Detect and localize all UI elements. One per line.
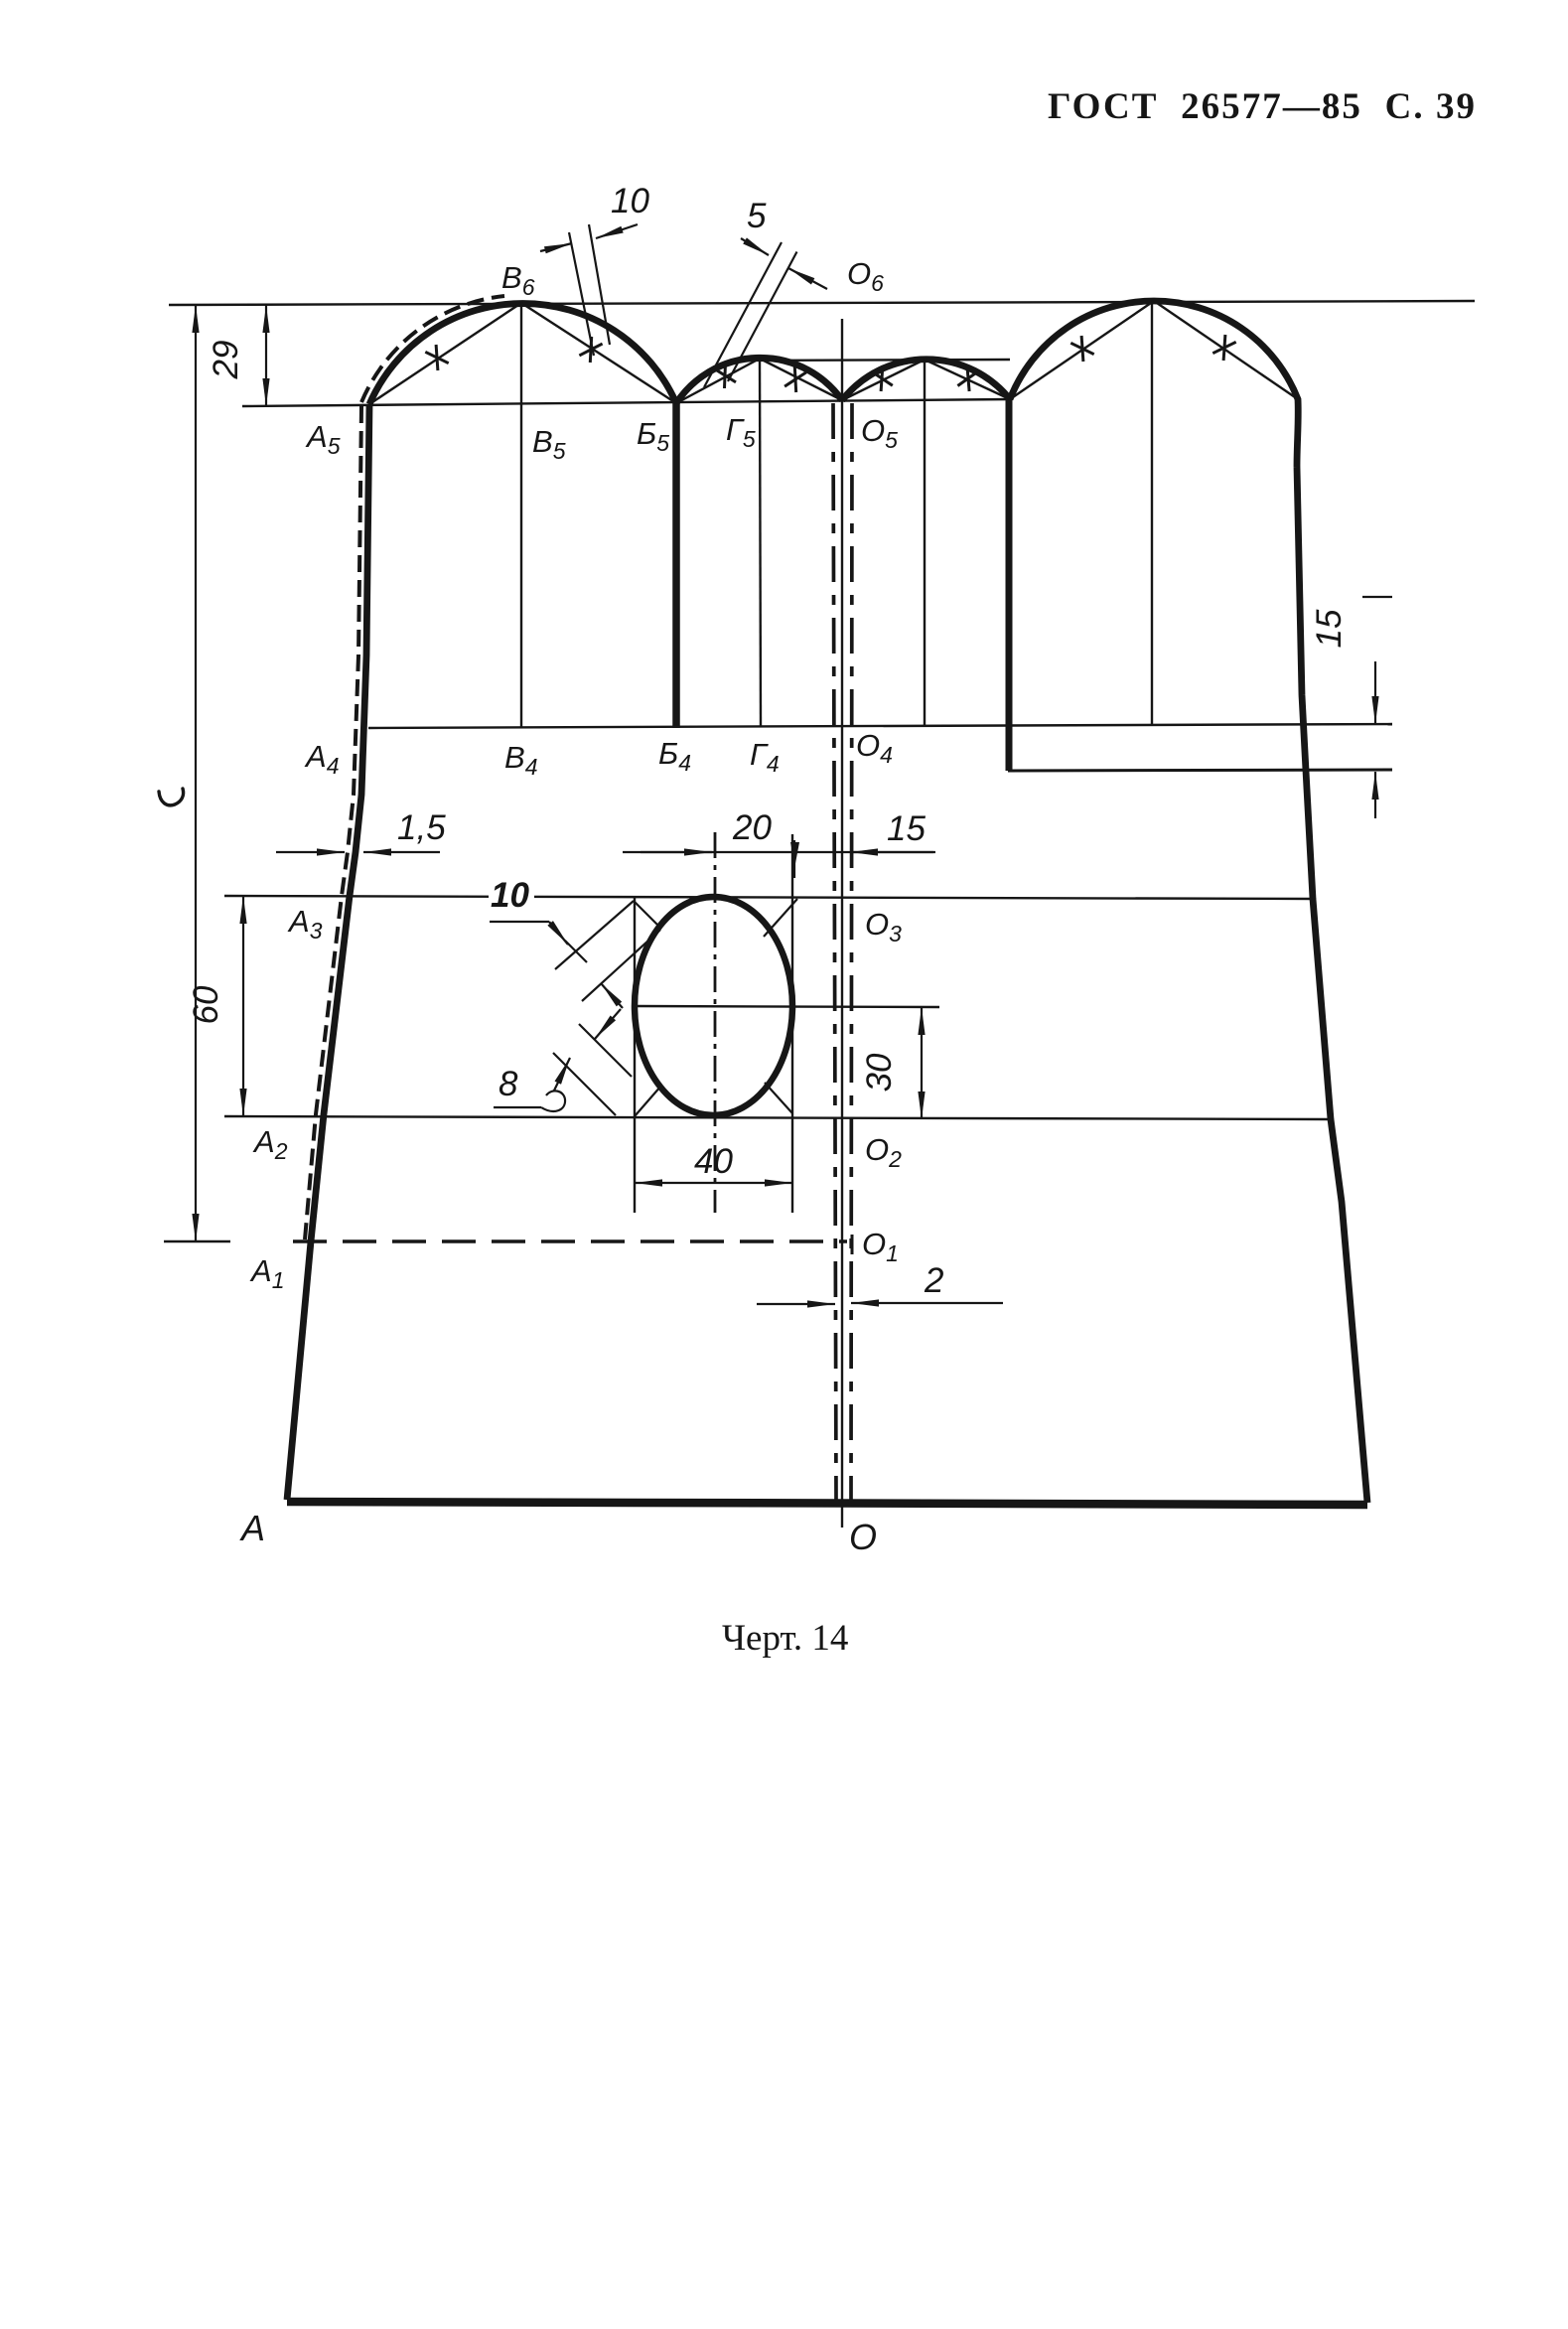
thumb corner diagonal top-right	[764, 899, 797, 937]
svg-text:О5: О5	[861, 413, 898, 453]
svg-text:10: 10	[611, 182, 649, 220]
svg-text:О2: О2	[865, 1132, 902, 1172]
dim 60 vertical line with arrows	[242, 896, 244, 1116]
svg-text:30: 30	[860, 1053, 899, 1092]
svg-text:8: 8	[499, 1065, 518, 1103]
thumb ext diagonal L3 through tangent point	[582, 930, 660, 1001]
horizontal centre line of thumb hole	[637, 1006, 939, 1007]
svg-text:15: 15	[887, 809, 926, 848]
node marker X3 on chord	[714, 363, 736, 388]
outline: small arc G-O5	[842, 360, 1010, 400]
centre axis left dashed companion	[833, 403, 836, 1502]
svg-text:А2: А2	[252, 1124, 288, 1164]
outline: small arc B5-G	[676, 358, 842, 403]
svg-text:В5: В5	[532, 424, 566, 464]
svg-text:Б5: Б5	[637, 416, 669, 456]
svg-text:А5: А5	[305, 419, 341, 459]
thumb corner diagonal top-left	[634, 901, 661, 929]
horizontal line A5 level	[242, 399, 1010, 406]
outline: big arc A5-B6-B5(index)	[369, 304, 676, 404]
svg-text:Г4: Г4	[750, 737, 780, 777]
svg-text:О4: О4	[856, 728, 893, 768]
svg-text:5: 5	[747, 197, 767, 235]
vertical thin line from right big arc peak	[1151, 301, 1153, 724]
dim 40 line with arrows	[635, 1182, 792, 1184]
outline: bottom edge A-O	[287, 1502, 1367, 1505]
horizontal line A4-O4	[368, 724, 1392, 728]
svg-text:О1: О1	[862, 1227, 899, 1266]
node marker X2 on chord	[579, 337, 602, 363]
outline: right edge	[1297, 467, 1367, 1503]
horizontal solid stub of A1 line (left)	[164, 1240, 230, 1242]
leader arrow of dim 10 (thumb): slanted shaft with arrow	[549, 922, 568, 945]
dim text 10 thumb (with white backing)	[489, 878, 534, 911]
svg-text:А1: А1	[249, 1253, 284, 1293]
vertical thin line from G peak	[760, 359, 761, 726]
leader of dim 8: curl	[541, 1091, 565, 1111]
thumb hole rectangle right extension line	[791, 834, 793, 1213]
svg-text:О: О	[849, 1517, 877, 1557]
svg-text:60: 60	[187, 985, 225, 1024]
dim 1,5: right shaft arrow left	[363, 851, 440, 853]
svg-text:1,5: 1,5	[397, 808, 446, 847]
dim 2: right shaft arrow left	[851, 1302, 1003, 1304]
svg-text:Б4: Б4	[658, 736, 691, 776]
double arrow to L5 (lower)	[595, 1009, 621, 1039]
svg-text:А3: А3	[287, 904, 323, 944]
svg-text:Г5: Г5	[726, 412, 756, 452]
chord A5-B6	[369, 303, 521, 404]
chord B6-B5	[521, 303, 676, 403]
dim 15 arrow at centre axis	[850, 851, 933, 853]
dim 5 extension line 2	[728, 252, 797, 382]
thumb ext diagonal L5 to ellipse	[579, 1024, 632, 1077]
node marker X7 on chord	[1070, 336, 1093, 362]
centre axis right dashed companion	[851, 403, 852, 1502]
svg-text:20: 20	[732, 808, 772, 847]
dim 15 right: lower shaft arrow up	[1374, 772, 1376, 818]
tick at O1	[851, 1235, 854, 1254]
dim 30 vertical line with arrows	[921, 1007, 923, 1119]
svg-text:В6: В6	[501, 260, 535, 300]
thumb ext diagonal L4 lower	[553, 1053, 616, 1115]
horizontal line A3-O3	[224, 896, 1313, 899]
chord base-peak3	[1010, 301, 1154, 399]
dim 5 arrow lower	[788, 268, 827, 289]
svg-text:29: 29	[207, 341, 245, 380]
vertical thin line from peak right of O5	[924, 360, 926, 726]
leader arrow of dim 10 (thumb): underline	[490, 921, 549, 923]
dim 5 arrow upper	[741, 238, 769, 255]
top horizontal construction line through B6	[169, 301, 1475, 305]
horizontal line at small-arc peaks	[748, 360, 1010, 361]
chord O5-peak2	[842, 360, 925, 400]
dim 15 right: label tick	[1362, 596, 1392, 598]
cut line at right arc left base	[1006, 399, 1013, 771]
leader of dim 8: underline	[494, 1106, 541, 1108]
dim 2: left shaft arrow right	[757, 1303, 835, 1305]
dim 15 right: upper shaft arrow down	[1374, 661, 1376, 724]
horizontal line 15 below O4 (little finger base)	[1008, 770, 1392, 771]
svg-text:Черт. 14: Черт. 14	[722, 1618, 848, 1659]
svg-text:В4: В4	[504, 740, 537, 780]
thumb hole ellipse	[635, 897, 792, 1115]
chord peak2-base	[925, 360, 1010, 399]
thumb corner diagonal bottom-left	[635, 1086, 661, 1116]
svg-text:ГОСТ 26577—85 С. 39: ГОСТ 26577—85 С. 39	[1048, 86, 1475, 127]
svg-text:15: 15	[1310, 609, 1349, 648]
vertical thin line from B6 peak	[520, 303, 522, 728]
tick crossing at leader tip	[565, 941, 587, 962]
outline: right big arc	[1010, 301, 1298, 467]
node marker X1 on chord	[425, 345, 448, 370]
cut line at B5 vertex	[672, 403, 680, 728]
dim 10 (top) arrow left	[540, 243, 572, 251]
svg-text:10: 10	[491, 876, 529, 915]
dim 20 arrow at thumb centre line	[641, 851, 712, 853]
dashed line A1-O1	[293, 1239, 847, 1242]
dashed allowance arc outside big arc	[361, 296, 504, 402]
dim 29 vertical line with arrows	[265, 305, 267, 406]
centre axis O solid thin line	[841, 319, 843, 1528]
svg-text:А4: А4	[304, 739, 339, 779]
chord Gpeak-O5	[760, 359, 842, 400]
outline: left edge A5..A (solid thick)	[287, 404, 369, 1500]
dim 5 extension line 1	[704, 242, 782, 387]
dim 20/15 line	[623, 851, 935, 853]
dim 20 small down arrow at x=800	[793, 840, 795, 878]
svg-text:О3: О3	[865, 907, 902, 946]
thumb corner diagonal bottom-right	[765, 1083, 792, 1113]
chord B5-Gpeak	[676, 359, 760, 403]
dim text l (script ell, rotated)	[159, 789, 184, 805]
dim 10 (top) extension line 1	[569, 232, 594, 356]
chord peak3-right	[1154, 301, 1298, 399]
svg-text:2: 2	[924, 1261, 943, 1300]
thumb ext diagonal L1 through top-left corner	[555, 901, 634, 969]
svg-text:40: 40	[694, 1142, 733, 1181]
node marker X8 on chord	[1212, 335, 1235, 361]
double arrow between L1 and L3 (upper)	[601, 983, 623, 1008]
node marker X4 on chord	[784, 366, 806, 392]
horizontal line A2-O2	[224, 1116, 1331, 1119]
dim 1,5: left shaft arrow right	[276, 851, 345, 853]
dim l vertical line with arrows	[195, 305, 197, 1241]
dim 10 (top) arrow right	[596, 224, 638, 238]
svg-text:О6: О6	[847, 256, 884, 296]
leader of dim 8: arrow	[554, 1058, 570, 1091]
node marker X6 on chord	[957, 365, 978, 391]
dashed allowance line along left edge	[305, 406, 361, 1239]
thumb hole vertical centre dash-dot line	[714, 832, 717, 1213]
dim 10 (top) extension line 2	[589, 224, 610, 345]
thumb hole rectangle left extension line	[634, 896, 636, 1213]
svg-text:А: А	[239, 1508, 265, 1548]
node marker X5 on chord	[871, 365, 893, 391]
